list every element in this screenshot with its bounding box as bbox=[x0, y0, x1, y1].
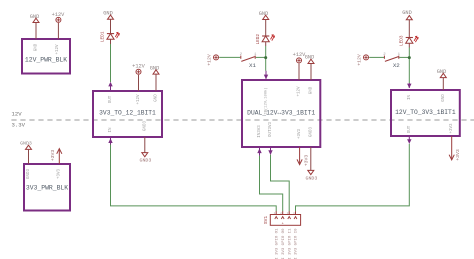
supply +12V at X2 bbox=[356, 54, 368, 66]
pin label IN(12V,100k) bbox=[264, 87, 269, 114]
svg-text:GND: GND bbox=[442, 94, 446, 102]
pin OUT (top, arrow out) 3V3_TO_12_1BIT1 bbox=[108, 82, 112, 91]
supply +12V above 12V_PWR_BLK bbox=[52, 12, 66, 39]
svg-text:GND3: GND3 bbox=[143, 120, 147, 131]
supply +12V above DUAL bbox=[293, 52, 307, 80]
svg-text:GND: GND bbox=[437, 69, 447, 75]
pin label IN (12V_TO_3V3) bbox=[408, 95, 412, 101]
net label 3.3V bbox=[12, 122, 26, 129]
SV1 net name GPIO IN 0 bbox=[295, 228, 299, 259]
svg-text:GND: GND bbox=[305, 55, 315, 61]
svg-text:WPI 3V3 GPIO I0: WPI 3V3 GPIO I0 bbox=[295, 228, 299, 259]
pin label GND (12V_TO_3V3) bbox=[442, 94, 446, 102]
pin label GND bbox=[155, 94, 159, 102]
switch X1 bbox=[240, 53, 257, 69]
supply GND above LED3 bbox=[402, 10, 412, 20]
module 3V3_PWR_BLK bbox=[24, 164, 70, 211]
switch X2 bbox=[383, 53, 400, 69]
svg-text:+3V3: +3V3 bbox=[450, 123, 454, 134]
svg-text:LED1: LED1 bbox=[101, 31, 106, 42]
supply GND above 12V_TO_3V3 bbox=[437, 69, 447, 90]
svg-text:12V_PWR_BLK: 12V_PWR_BLK bbox=[25, 57, 67, 64]
svg-text:OUT: OUT bbox=[109, 95, 113, 103]
svg-text:GND: GND bbox=[30, 14, 40, 20]
supply GND above DUAL bbox=[305, 55, 315, 80]
svg-text:+3V3: +3V3 bbox=[298, 128, 302, 139]
wire: X2 switch to node N2 bbox=[399, 56, 409, 58]
svg-text:GND3: GND3 bbox=[306, 175, 318, 181]
svg-text:OUT: OUT bbox=[408, 125, 412, 133]
svg-text:GND: GND bbox=[402, 10, 412, 16]
svg-text:SV1: SV1 bbox=[263, 216, 269, 225]
SV1 pin 2 bbox=[280, 211, 284, 219]
pin IN3V3 (bottom, arrow in) DUAL bbox=[257, 147, 261, 156]
wire: LED1 to left block OUT pin bbox=[110, 44, 112, 82]
svg-text:GND3: GND3 bbox=[20, 141, 32, 147]
svg-text:+12V: +12V bbox=[356, 54, 362, 66]
pin label GND3 (DUAL) bbox=[309, 126, 313, 137]
svg-text:GND: GND bbox=[150, 65, 160, 71]
pin label GND (DUAL) bbox=[310, 86, 314, 94]
pin label +12V bbox=[137, 94, 141, 105]
pin label IN bbox=[109, 127, 113, 133]
connector SV1 body bbox=[263, 215, 300, 227]
supply GND3 below DUAL bbox=[306, 147, 318, 181]
net label 12V bbox=[12, 111, 23, 118]
svg-text:4: 4 bbox=[293, 212, 295, 215]
svg-text:+3V3: +3V3 bbox=[455, 149, 461, 161]
svg-text:+3V3: +3V3 bbox=[50, 150, 56, 162]
svg-text:IN: IN bbox=[408, 95, 412, 101]
svg-text:OUT3V3: OUT3V3 bbox=[269, 121, 273, 137]
SV1 net name GPIO OUT 1 bbox=[275, 228, 279, 259]
svg-text:X1: X1 bbox=[249, 62, 256, 69]
pin label +12V (DUAL) bbox=[298, 86, 302, 97]
SV1 net name GPIO IN 1 bbox=[288, 228, 292, 259]
wire: left block IN to SV1 pin1 bbox=[111, 145, 277, 212]
svg-text:LED3: LED3 bbox=[399, 35, 404, 46]
svg-text:GND3: GND3 bbox=[140, 157, 152, 163]
svg-text:+12V: +12V bbox=[132, 64, 146, 70]
module DUAL_12V(arrows)3V3_1BIT1 bbox=[242, 80, 320, 147]
wire: DUAL OUT3V3 to SV1 pin3 bbox=[271, 155, 290, 212]
supply +3V3 below 12V_TO_3V3 bbox=[449, 136, 461, 161]
supply +12V at X1 bbox=[206, 54, 218, 66]
wire: LED3 to node N2 bbox=[408, 48, 410, 58]
wire: DUAL IN3V3 to SV1 pin2 bbox=[260, 156, 283, 212]
svg-text:3V3_TO_12_1BIT1: 3V3_TO_12_1BIT1 bbox=[99, 109, 156, 116]
svg-text:GND: GND bbox=[35, 43, 39, 51]
svg-text:GND: GND bbox=[155, 94, 159, 102]
supply +3V3 below DUAL bbox=[297, 147, 310, 166]
svg-text:3: 3 bbox=[287, 212, 289, 215]
supply GND above 12V_PWR_BLK bbox=[30, 14, 40, 39]
pin OUT3V3 (bottom, arrow out) DUAL bbox=[268, 147, 272, 155]
pin label OUT (12V_TO_3V3) bbox=[408, 125, 412, 133]
pin OUT (bottom, arrow out) 12V_TO_3V3 bbox=[407, 136, 411, 144]
svg-text:1: 1 bbox=[274, 212, 276, 215]
wire: LED2 to node N1 bbox=[265, 46, 267, 57]
svg-text:+: + bbox=[282, 223, 284, 227]
svg-text:WPI 3V3 GPIO I1: WPI 3V3 GPIO I1 bbox=[288, 228, 292, 259]
svg-text:DUAL_12V↔3V3_1BIT1: DUAL_12V↔3V3_1BIT1 bbox=[247, 109, 315, 116]
module 3V3_TO_12_1BIT1 bbox=[93, 91, 162, 137]
LED2 bbox=[256, 20, 275, 47]
LED1 bbox=[101, 19, 120, 44]
svg-text:LED2: LED2 bbox=[256, 34, 261, 45]
svg-text:GND3: GND3 bbox=[27, 168, 31, 179]
pin label +3V3 (12V_TO_3V3) bbox=[450, 123, 454, 134]
svg-text:3V3_PWR_BLK: 3V3_PWR_BLK bbox=[26, 185, 68, 192]
wire: X1 +12V to switch bbox=[219, 56, 240, 58]
supply GND above LED2 bbox=[259, 11, 269, 20]
pin label +3V3 (DUAL) bbox=[298, 128, 302, 139]
svg-text:X2: X2 bbox=[393, 62, 400, 69]
svg-text:12V_TO_3V3_1BIT1: 12V_TO_3V3_1BIT1 bbox=[395, 109, 456, 116]
junction node N1 bbox=[264, 56, 267, 59]
wire: node N2 to right block IN pin bbox=[408, 57, 410, 83]
svg-text:+12V: +12V bbox=[298, 86, 302, 97]
svg-text:WPI 3V3 GPIO O1: WPI 3V3 GPIO O1 bbox=[275, 228, 279, 259]
supply GND above 3V3_TO_12_1BIT1 bbox=[150, 65, 160, 91]
SV1 pin 4 bbox=[293, 211, 297, 219]
svg-text:12V: 12V bbox=[12, 111, 23, 118]
wire: right block OUT to SV1 pin4 bbox=[296, 144, 410, 212]
svg-text:GND: GND bbox=[310, 86, 314, 94]
supply GND3 above 3V3_PWR_BLK bbox=[20, 141, 32, 164]
svg-text:+3V3: +3V3 bbox=[304, 155, 310, 167]
pin label GND3 bbox=[143, 120, 147, 131]
svg-text:GND3: GND3 bbox=[309, 126, 313, 137]
pin label GND (12V_PWR_BLK) bbox=[35, 43, 39, 51]
svg-text:+3V3: +3V3 bbox=[58, 168, 62, 179]
pin IN (top, arrow in) 12V_TO_3V3 bbox=[407, 83, 411, 88]
pin label IN3V3 bbox=[258, 125, 262, 138]
svg-text:WPI 3V3 GPIO O0: WPI 3V3 GPIO O0 bbox=[282, 228, 286, 259]
module 12V_TO_3V3_1BIT1 bbox=[391, 90, 460, 136]
supply GND3 below 3V3_TO_12_1BIT1 bbox=[140, 137, 152, 163]
SV1 net name GPIO OUT 0 bbox=[282, 228, 286, 259]
pin label GND3 (3V3_PWR_BLK) bbox=[27, 168, 31, 179]
pin label +12V (12V_PWR_BLK) bbox=[56, 44, 60, 55]
svg-text:+12V: +12V bbox=[206, 54, 212, 66]
svg-text:GND: GND bbox=[259, 11, 269, 17]
pin label OUT3V3 bbox=[269, 121, 273, 137]
pin label +3V3 (3V3_PWR_BLK) bbox=[58, 168, 62, 179]
pin IN (bottom, arrow in) 3V3_TO_12_1BIT1 bbox=[108, 137, 112, 145]
supply +3V3 above 3V3_PWR_BLK bbox=[50, 149, 62, 164]
svg-text:IN(12V,100k): IN(12V,100k) bbox=[264, 87, 269, 114]
wire: X2 +12V to switch bbox=[369, 56, 384, 58]
supply GND above LED1 bbox=[103, 11, 113, 20]
svg-text:3.3V: 3.3V bbox=[12, 122, 26, 129]
wire: X1 switch to node N1 bbox=[256, 56, 266, 58]
SV1 pin 1 bbox=[274, 211, 278, 219]
svg-text:IN: IN bbox=[109, 127, 113, 133]
svg-text:2: 2 bbox=[280, 212, 282, 215]
svg-text:+12V: +12V bbox=[137, 94, 141, 105]
LED3 bbox=[399, 20, 418, 48]
SV1 pin 3 bbox=[287, 211, 291, 219]
svg-text:+12V: +12V bbox=[56, 44, 60, 55]
svg-text:IN3V3: IN3V3 bbox=[258, 125, 262, 138]
junction node N2 bbox=[408, 56, 411, 59]
module 12V_PWR_BLK bbox=[22, 39, 70, 74]
wire: node N1 to DUAL pin IN12V bbox=[265, 57, 267, 70]
supply +12V above 3V3_TO_12_1BIT1 bbox=[132, 64, 146, 91]
voltage domain separator dashed line bbox=[11, 119, 474, 121]
pin label OUT bbox=[109, 95, 113, 103]
pin IN12V (top, arrow in) DUAL bbox=[264, 71, 268, 80]
